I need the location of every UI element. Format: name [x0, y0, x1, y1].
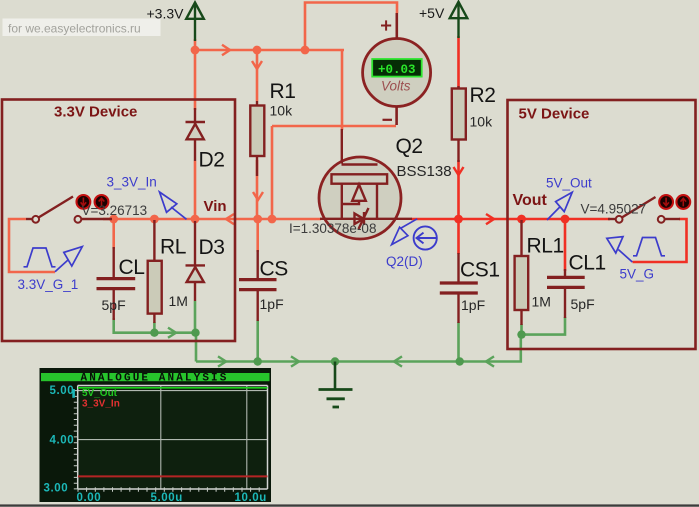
box 3.3V Device: [2, 100, 235, 342]
svg-text:RL1: RL1: [527, 235, 564, 258]
axis ticks: [74, 391, 259, 492]
legend: [82, 388, 120, 410]
trace 3_3V_In: [78, 475, 268, 477]
wire CS ground: [256, 320, 259, 362]
power +3.3V: [186, 3, 204, 42]
current probe Q2(D) pointer: [392, 219, 418, 245]
svg-text:CL1: CL1: [569, 252, 606, 275]
transistor Q2 body: [319, 157, 401, 239]
plot border axes: [78, 386, 268, 490]
junction Vout/RL1: [517, 215, 526, 224]
arrow right on bus left: [218, 356, 226, 366]
voltmeter plus mark: [381, 20, 391, 30]
junction rail/R1: [253, 46, 262, 55]
wire +5V to R2: [457, 36, 460, 89]
voltmeter body: [363, 39, 431, 107]
arrow right on bus mid: [291, 356, 299, 366]
graph window ANALOGUE ANALYSIS: [40, 368, 272, 504]
svg-text:ANALOGUE ANALYSIS: ANALOGUE ANALYSIS: [81, 373, 229, 385]
transistor Q2 symbol: [320, 129, 412, 229]
svg-text:CS1: CS1: [460, 259, 500, 282]
generator 3.3V_G_1 pointer: [55, 247, 82, 272]
svg-text:10k: 10k: [470, 114, 494, 130]
switch SW1: [26, 197, 112, 223]
Q2 drain-source through line: [320, 218, 412, 220]
junction 3.3V rail at power: [191, 46, 200, 55]
svg-text:CS: CS: [260, 258, 289, 281]
svg-text:5.00u: 5.00u: [151, 492, 183, 504]
svg-text:1pF: 1pF: [260, 296, 284, 312]
probe 3_3V_In pointer: [160, 192, 187, 219]
bottom screen edge line: [0, 504, 699, 506]
wire R1 bottom to Vin: [256, 160, 259, 219]
wire voltmeter plus loop: [305, 3, 397, 51]
junction gnd D3: [191, 329, 199, 337]
wire CS top: [256, 219, 259, 252]
probe 5V_Out pointer: [547, 192, 572, 220]
wire Vin horizontal: [103, 218, 321, 221]
resistor RL1: [515, 220, 529, 325]
voltmeter minus mark: [383, 119, 393, 121]
junction Vin/CL: [109, 215, 118, 224]
svg-text:Volts: Volts: [381, 79, 411, 94]
power +5V: [450, 2, 468, 38]
svg-text:D2: D2: [199, 149, 225, 172]
svg-text:4.00: 4.00: [50, 435, 75, 447]
wire CL bottom: [114, 318, 196, 333]
wire voltmeter minus to gate node: [272, 125, 396, 128]
diode D2: [186, 108, 206, 161]
svg-text:R1: R1: [270, 80, 296, 103]
diode D3: [186, 221, 206, 301]
arrow down below R1: [253, 192, 263, 200]
wire gate drop from rail: [341, 50, 344, 130]
junction Vin/D2 D3: [191, 215, 200, 224]
svg-text:5V Device: 5V Device: [519, 106, 590, 123]
resistor RL: [148, 220, 162, 323]
generator 5V_G pointer: [607, 237, 633, 262]
junction gnd CL/RL: [150, 329, 158, 337]
arrow right on 3.3V rail: [222, 45, 230, 55]
arrow left on Vin wire: [226, 214, 234, 224]
capacitor CS1: [440, 253, 478, 323]
svg-text:5.00: 5.00: [50, 385, 75, 397]
svg-text:5V_Out: 5V_Out: [82, 388, 118, 399]
arrow left on bus right1: [394, 356, 402, 366]
wire 3.3V rail vertical above D2: [194, 39, 197, 110]
current probe Q2(D) circle arrow: [414, 226, 437, 249]
svg-text:3.00: 3.00: [44, 483, 69, 495]
ground symbol: [319, 362, 353, 408]
junction rail/voltmeter loop: [301, 46, 310, 55]
voltmeter pins: [395, 13, 398, 125]
wire RL bottom: [153, 322, 156, 333]
svg-text:10.0u: 10.0u: [235, 492, 267, 504]
svg-text:I=1.30378e-08: I=1.30378e-08: [289, 221, 376, 236]
svg-text:BSS138: BSS138: [397, 163, 452, 180]
svg-text:Vout: Vout: [513, 192, 548, 209]
wire Vout horizontal: [411, 218, 610, 221]
svg-text:Q2(D): Q2(D): [386, 254, 423, 269]
generator 5V_G waveform: [633, 238, 665, 256]
wire ground drop 3.3V side: [195, 333, 198, 362]
wire CS1 top: [457, 219, 460, 254]
svg-text:5V_Out: 5V_Out: [546, 176, 592, 191]
wire ground bus: [196, 335, 521, 362]
arrow right on Vout wire: [486, 214, 494, 224]
wire 3.3V top rail horizontal: [194, 49, 344, 52]
svg-text:+5V: +5V: [419, 5, 445, 21]
junction bus CS1: [456, 357, 464, 365]
capacitor CL: [97, 247, 136, 320]
switch SW2: [608, 197, 680, 223]
arrow left on bus right2: [486, 356, 494, 366]
svg-text:3.3V_G_1: 3.3V_G_1: [18, 277, 79, 292]
trace 5V_Out: [78, 387, 268, 389]
svg-text:V=4.95027: V=4.95027: [581, 202, 647, 217]
wire RL1 bottom: [520, 324, 523, 335]
svg-text:R2: R2: [470, 84, 496, 107]
svg-text:5pF: 5pF: [102, 297, 126, 313]
svg-text:5pF: 5pF: [571, 296, 595, 312]
resistor R1: [250, 101, 264, 176]
legend cyan marker: [72, 389, 75, 398]
svg-text:1M: 1M: [532, 294, 551, 310]
junction RL1/CL1 gnd: [517, 330, 525, 338]
svg-text:5V_G: 5V_G: [620, 267, 655, 282]
switch SW2 buttons: [659, 195, 690, 209]
wire gate feedback vertical: [271, 126, 274, 219]
junction Vout/R2 CS1: [454, 215, 463, 224]
svg-text:+0.03: +0.03: [378, 63, 416, 77]
svg-text:+3.3V: +3.3V: [147, 6, 185, 22]
wire switch1 left to generator: [9, 219, 55, 272]
svg-text:RL: RL: [160, 236, 186, 259]
generator 3.3V_G_1 waveform: [24, 248, 56, 267]
capacitor CL1: [547, 269, 585, 318]
capacitor CS: [239, 250, 277, 321]
junction bus ground symbol: [331, 357, 339, 365]
svg-text:D3: D3: [199, 236, 225, 259]
svg-text:3_3V_In: 3_3V_In: [107, 175, 157, 190]
resistor R2: [452, 86, 466, 162]
svg-text:CL: CL: [119, 256, 145, 279]
junction Vout/CL1: [561, 215, 570, 224]
watermark: [3, 19, 161, 37]
gridlines: [78, 386, 268, 490]
svg-text:Vin: Vin: [204, 198, 227, 215]
svg-text:10k: 10k: [270, 103, 294, 119]
voltmeter LCD: [372, 59, 422, 77]
wire CL top: [112, 219, 115, 249]
svg-text:V=3.26713: V=3.26713: [82, 203, 148, 218]
wire D3 bottom: [194, 301, 197, 333]
junction Vin/R1 CS: [253, 215, 262, 224]
box 5V Device: [508, 100, 696, 349]
svg-text:0.00: 0.00: [77, 492, 102, 504]
arrow down into R1: [252, 61, 262, 69]
svg-text:1pF: 1pF: [461, 297, 485, 313]
wire CL1 bottom: [522, 317, 566, 335]
junction bus CS: [254, 357, 262, 365]
svg-text:for we.easyelectronics.ru: for we.easyelectronics.ru: [8, 22, 141, 36]
junction Vin/feedback: [268, 215, 277, 224]
junction Vin/RL: [150, 215, 159, 224]
arrow down below R2: [454, 167, 464, 175]
switch SW1 buttons: [77, 195, 109, 209]
wire switch2 right to generator 5V_G: [633, 219, 687, 262]
wire CS1 ground: [457, 322, 460, 362]
wire CL1 top: [564, 219, 567, 271]
svg-text:3_3V_In: 3_3V_In: [82, 399, 120, 410]
wire R2 bottom to Vout: [457, 160, 460, 219]
wire D2 to Vin node: [194, 161, 197, 219]
y labels: [44, 385, 267, 504]
svg-text:3.3V Device: 3.3V Device: [54, 104, 137, 121]
svg-text:1M: 1M: [169, 293, 188, 309]
arrow right on box gnd wire: [168, 328, 176, 338]
wire R1 top: [256, 50, 259, 101]
svg-text:Q2: Q2: [396, 135, 423, 158]
